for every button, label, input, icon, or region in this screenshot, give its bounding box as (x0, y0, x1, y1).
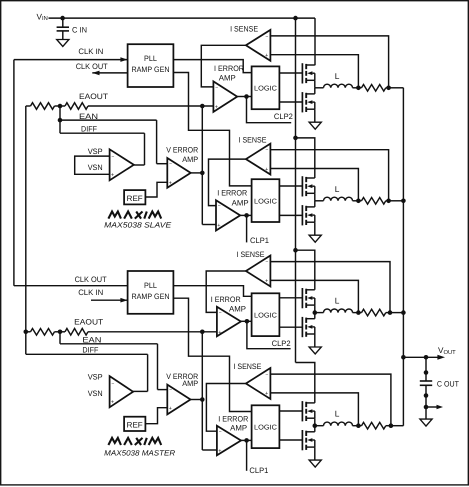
wire gate drive low-side (phase 3) (279, 326, 302, 328)
LOGIC box (phase 2) (252, 179, 280, 222)
wire low-side source to ground (phase 3) (314, 334, 316, 347)
svg-text:+: + (215, 104, 218, 110)
node EAOUT left junction (master) (24, 330, 29, 335)
svg-text:−: − (169, 388, 172, 394)
wire VOUT vertical bus (402, 88, 404, 426)
svg-text:I SENSE: I SENSE (237, 250, 265, 259)
node V ERROR AMP output on EAOUT riser (slave) (200, 171, 205, 176)
low-side MOSFET phase 4 body arrow (307, 438, 312, 442)
high-side MOSFET phase 1 gate bar (301, 63, 303, 83)
svg-text:I ERROR: I ERROR (217, 189, 247, 198)
op-amp I ERROR AMP (phase 4) (217, 426, 241, 456)
svg-text:I ERROR: I ERROR (218, 414, 248, 423)
inductor L (phase 3) (324, 309, 353, 313)
wire switching node to inductor (phase 2) (315, 200, 324, 202)
wire high-side source to switching node (phase 4) (314, 418, 316, 426)
svg-text:VSN: VSN (88, 163, 103, 172)
svg-text:EAOUT: EAOUT (74, 318, 103, 327)
low-side MOSFET phase 1 body-source vertical (314, 102, 316, 109)
svg-text:EAN: EAN (82, 336, 101, 345)
wire C OUT branch (425, 357, 427, 381)
low-side MOSFET phase 3 gate bar (301, 317, 303, 337)
svg-text:LOGIC: LOGIC (254, 86, 277, 93)
svg-text:VSP: VSP (88, 373, 103, 382)
node resistor junction (slave) (58, 104, 63, 109)
svg-text:+: + (169, 406, 172, 412)
wire I SENSE + input to resistor left (phase 4) (270, 393, 358, 426)
wire REF to V ERROR AMP + input (slave) (145, 182, 167, 197)
wire I SENSE - input to resistor right (phase 1) (270, 36, 388, 88)
low-side MOSFET phase 1 drain stub (306, 93, 315, 95)
low-side MOSFET phase 4 channel dashes (305, 431, 307, 436)
wire EAOUT riser (slave) (201, 106, 203, 225)
LOGIC box (phase 3) (252, 293, 280, 336)
svg-text:VSP: VSP (88, 147, 103, 156)
LOGIC box (phase 1) (252, 66, 280, 109)
node C OUT bottom (424, 393, 429, 398)
svg-text:AMP: AMP (232, 199, 249, 208)
PLL RAMP GEN box (slave) (128, 44, 174, 87)
high-side MOSFET phase 2 gate bar (301, 176, 303, 196)
wire switching node to inductor (phase 3) (315, 312, 324, 314)
node VOUT bus output tap (401, 355, 406, 360)
svg-text:MAX5038 MASTER: MAX5038 MASTER (104, 448, 176, 457)
node C OUT top (424, 370, 429, 375)
svg-text:+: + (169, 181, 172, 187)
wire CLK IN stub (master) (91, 299, 128, 301)
svg-text:L: L (335, 71, 340, 81)
svg-text:CLK IN: CLK IN (78, 288, 103, 297)
wire DIFF riser to buffer output (slave) (144, 133, 146, 165)
ground below C IN (57, 40, 69, 47)
ground low-side (phase 4) (309, 460, 321, 467)
svg-text:+: + (265, 53, 268, 59)
REF box (slave) (124, 190, 145, 204)
svg-text:−: − (265, 260, 268, 266)
wire low-side drain to switching node (phase 4) (314, 426, 316, 432)
low-side MOSFET phase 1 source stub (306, 108, 315, 110)
high-side MOSFET phase 4 drain stub (306, 402, 315, 404)
svg-text:+: + (265, 391, 268, 397)
node I ERROR AMP output (phase 4) (244, 438, 249, 443)
wire I ERROR AMP output to LOGIC (phase 1) (237, 96, 251, 98)
wire CLK OUT (master) (14, 285, 128, 287)
inductor L (phase 2) (324, 197, 353, 201)
node VOUT bus phase2 (401, 199, 406, 204)
wire gate drive high-side (phase 2) (279, 185, 302, 187)
wire C OUT bottom (425, 385, 427, 419)
MAXIM logo (slave) (108, 212, 121, 219)
svg-text:+: + (218, 448, 221, 454)
wire gate drive high-side (phase 1) (279, 72, 302, 74)
svg-text:+: + (111, 400, 114, 406)
svg-text:−: − (265, 34, 268, 40)
resistor EAN R (master) (65, 329, 88, 336)
svg-text:AMP: AMP (219, 73, 236, 82)
low-side MOSFET phase 4 gate bar (301, 430, 303, 450)
wire high-side source to switching node (phase 2) (314, 193, 316, 201)
wire low-side drain to switching node (phase 1) (314, 88, 316, 94)
wire gate drive high-side (phase 3) (279, 297, 302, 299)
wire VSP/VSN loop (slave) (75, 156, 110, 174)
wire EAOUT riser to + input (phase 2) (202, 224, 216, 226)
node resistor-VOUT bus (phase 3) (388, 310, 393, 315)
wire CLK OUT stub (slave) (92, 72, 127, 74)
high-side MOSFET phase 2 source stub (306, 192, 315, 194)
high-side MOSFET phase 3 body arrow (307, 296, 312, 300)
comparator I SENSE (phase 1) (246, 30, 271, 61)
wire VIN branch (phase 3) (296, 250, 315, 290)
REF box (master) (124, 417, 145, 431)
svg-text:CLP1: CLP1 (250, 236, 269, 245)
low-side MOSFET phase 2 body arrow (307, 213, 312, 217)
svg-text:LOGIC: LOGIC (254, 424, 277, 431)
svg-text:AMP: AMP (230, 423, 247, 432)
wire CLP1 (phase 4) (246, 440, 248, 470)
node inductor-resistor (phase 1) (356, 86, 361, 91)
wire gate drive low-side (phase 1) (279, 101, 302, 103)
high-side MOSFET phase 1 drain stub (306, 64, 315, 66)
node inductor-resistor (phase 2) (356, 199, 361, 204)
svg-text:+: + (265, 279, 268, 285)
high-side MOSFET phase 2 body arrow (307, 184, 312, 188)
wire high-side source to switching node (phase 3) (314, 305, 316, 313)
wire I SENSE output to I ERROR AMP - (phase 3) (206, 271, 246, 312)
node VIN junction to vertical bus (293, 16, 298, 21)
svg-text:CLP1: CLP1 (249, 466, 268, 475)
node VIN bus tap phase3 (293, 248, 298, 253)
ground low-side (phase 2) (309, 235, 321, 242)
wire CLK loop (master CLKOUT to slave CLKIN) (13, 60, 15, 286)
wire C IN bottom lead (62, 31, 64, 40)
svg-text:I SENSE: I SENSE (230, 25, 258, 34)
svg-text:−: − (219, 310, 222, 316)
svg-text:−: − (218, 204, 221, 210)
low-side MOSFET phase 2 body-source vertical (314, 215, 316, 222)
comparator I SENSE (phase 3) (246, 256, 271, 287)
node switching node (phase 4) (313, 423, 318, 428)
capacitor C OUT (420, 380, 432, 382)
svg-text:RAMP GEN: RAMP GEN (132, 292, 170, 301)
ground C OUT (420, 419, 432, 426)
svg-text:PLL: PLL (144, 54, 158, 63)
wire low-side source to ground (phase 2) (314, 222, 316, 235)
wire VIN branch (phase 2) (296, 138, 315, 178)
op-amp I ERROR AMP (phase 1) (213, 81, 237, 112)
node switching node (phase 3) (313, 310, 318, 315)
wire low-side source to ground (phase 4) (314, 447, 316, 460)
wire I SENSE + input to resistor left (phase 3) (270, 280, 358, 312)
wire switching node to inductor (phase 1) (315, 87, 324, 89)
wire PLL to LOGIC phase B (master) (173, 298, 251, 411)
svg-text:+: + (111, 173, 114, 179)
resistor feedback R (master) (31, 329, 55, 336)
node I ERROR AMP output (phase 2) (244, 213, 249, 218)
svg-text:CLP2: CLP2 (274, 112, 293, 121)
wire switching node to inductor (phase 4) (315, 425, 324, 427)
node V ERROR AMP output on EAOUT riser (master) (200, 397, 205, 402)
wire EAN tap (master) (59, 332, 61, 344)
wire DIFF line (master) (26, 353, 148, 355)
svg-text:VSN: VSN (88, 389, 103, 398)
capacitor C IN (57, 26, 69, 28)
node resistor junction (master) (58, 330, 63, 335)
low-side MOSFET phase 4 body-source vertical (314, 440, 316, 447)
node inductor-resistor (phase 4) (356, 423, 361, 428)
op-amp VSP/VSN buffer (slave) (110, 149, 134, 180)
node load arrow tap (424, 405, 429, 410)
node I ERROR AMP output (phase 1) (244, 94, 249, 99)
node I ERROR AMP output (phase 3) (245, 319, 250, 324)
high-side MOSFET phase 4 body arrow (307, 409, 312, 413)
svg-text:CLK OUT: CLK OUT (76, 62, 108, 71)
low-side MOSFET phase 3 source stub (306, 333, 315, 335)
svg-text:CLK OUT: CLK OUT (75, 275, 107, 284)
ground low-side (phase 3) (309, 347, 321, 354)
op-amp VSP/VSN buffer (master) (110, 376, 134, 407)
svg-text:+: + (217, 223, 220, 229)
wire EAOUT riser (master) (201, 332, 203, 450)
svg-text:V ERROR: V ERROR (166, 146, 198, 155)
wire resistor to VOUT bus (phase 3) (390, 312, 403, 314)
svg-text:CLP2: CLP2 (272, 339, 291, 348)
wire C IN top lead (62, 18, 64, 27)
svg-text:I SENSE: I SENSE (239, 135, 267, 144)
wire I SENSE - input to resistor right (phase 2) (270, 150, 388, 201)
wire I SENSE output to I ERROR AMP - (phase 2) (209, 159, 246, 206)
svg-text:REF: REF (127, 194, 143, 203)
ground low-side (phase 1) (309, 122, 321, 129)
svg-text:−: − (265, 148, 268, 154)
svg-text:+: + (265, 167, 268, 173)
wire VOUT tap (403, 356, 438, 358)
wire I SENSE - input to resistor right (phase 4) (270, 374, 391, 426)
svg-text:REF: REF (127, 421, 143, 430)
svg-text:L: L (335, 184, 340, 194)
svg-text:EAN: EAN (79, 112, 98, 121)
low-side MOSFET phase 2 drain stub (306, 206, 315, 208)
MAXIM logo (master) (108, 438, 121, 445)
high-side MOSFET phase 4 channel dashes (305, 402, 307, 407)
wire high-side source to switching node (phase 1) (314, 80, 316, 88)
low-side MOSFET phase 1 channel dashes (305, 93, 307, 98)
wire I SENSE - input to resistor right (phase 3) (270, 262, 390, 313)
wire PLL to LOGIC phase A (master) (173, 286, 251, 297)
node resistor-VOUT bus (phase 2) (386, 199, 391, 204)
svg-text:AMP: AMP (229, 305, 246, 314)
comparator I SENSE (phase 2) (246, 144, 271, 175)
wire EAOUT row (master) (26, 331, 31, 333)
svg-text:−: − (111, 381, 114, 387)
high-side MOSFET phase 1 body-source vertical (314, 73, 316, 80)
svg-text:AMP: AMP (182, 155, 198, 164)
svg-text:L: L (335, 296, 340, 306)
low-side MOSFET phase 2 source stub (306, 221, 315, 223)
wire resistor to VOUT bus (phase 1) (389, 87, 404, 89)
wire EAN riser to V ERROR AMP inverting input (slave) (156, 120, 158, 164)
high-side MOSFET phase 4 body-source vertical (314, 411, 316, 418)
high-side MOSFET phase 2 channel dashes (305, 177, 307, 182)
PLL RAMP GEN box (master) (128, 271, 174, 314)
low-side MOSFET phase 4 drain stub (306, 431, 315, 433)
low-side MOSFET phase 1 body arrow (307, 100, 312, 104)
resistor feedback R (slave) (31, 103, 55, 110)
wire V ERROR AMP output (slave) (191, 172, 203, 174)
svg-text:LOGIC: LOGIC (254, 198, 277, 205)
wire EAOUT network link (slave to master) (25, 106, 27, 354)
svg-text:LOGIC: LOGIC (254, 312, 277, 319)
node EAOUT riser tap (slave) (200, 104, 205, 109)
LOGIC box (phase 4) (252, 405, 280, 448)
wire REF to V ERROR AMP + input (master) (145, 408, 167, 424)
wire low-side drain to switching node (phase 2) (314, 201, 316, 207)
node VIN junction to C IN (60, 16, 65, 21)
node inductor-resistor (phase 3) (356, 310, 361, 315)
sense resistor (phase 3) (358, 312, 361, 314)
wire EAOUT riser to + input (phase 4) (202, 449, 217, 451)
svg-text:I ERROR: I ERROR (214, 64, 244, 73)
low-side MOSFET phase 1 gate bar (301, 92, 303, 112)
wire V ERROR AMP output (master) (191, 399, 203, 401)
svg-text:−: − (111, 154, 114, 160)
svg-text:+: + (218, 330, 221, 336)
high-side MOSFET phase 3 channel dashes (305, 289, 307, 294)
svg-text:AMP: AMP (182, 379, 198, 388)
low-side MOSFET phase 2 gate bar (301, 205, 303, 225)
svg-text:PLL: PLL (144, 281, 158, 290)
wire CLP2 (phase 3) (247, 321, 291, 348)
wire EAOUT row (slave) (26, 105, 31, 107)
low-side MOSFET phase 3 body arrow (307, 325, 312, 329)
low-side MOSFET phase 3 channel dashes (305, 318, 307, 323)
high-side MOSFET phase 3 gate bar (301, 288, 303, 308)
wire EAN/DIFF taps (slave) (59, 106, 61, 133)
low-side MOSFET phase 4 source stub (306, 446, 315, 448)
wire gate drive high-side (phase 4) (279, 410, 302, 412)
high-side MOSFET phase 1 source stub (306, 79, 315, 81)
wire I SENSE + input to resistor left (phase 2) (270, 169, 358, 201)
wire PLL to LOGIC phase A (slave) (173, 60, 251, 73)
wire I SENSE output to I ERROR AMP - (phase 1) (201, 45, 246, 87)
wire buffer output (master) (133, 390, 148, 392)
inductor L (phase 4) (324, 422, 353, 426)
node EAOUT riser tap (master) (200, 330, 205, 335)
high-side MOSFET phase 3 body-source vertical (314, 298, 316, 305)
svg-text:CLK IN: CLK IN (78, 47, 103, 56)
wire low-side drain to switching node (phase 3) (314, 313, 316, 319)
wire I SENSE output to I ERROR AMP - (phase 4) (206, 384, 246, 432)
sense resistor (phase 4) (358, 425, 361, 427)
op-amp I ERROR AMP (phase 2) (216, 200, 240, 230)
wire VIN vertical bus (295, 18, 297, 362)
low-side MOSFET phase 2 channel dashes (305, 206, 307, 211)
node VOUT bus phase3 (401, 310, 406, 315)
wire I SENSE + input to resistor left (phase 1) (270, 55, 358, 88)
wire low-side source to ground (phase 1) (314, 109, 316, 122)
inductor L (phase 1) (324, 84, 353, 88)
wire VIN branch (phase 4) (296, 363, 315, 403)
svg-text:DIFF: DIFF (82, 346, 98, 355)
wire VIN drop to phase1 high-side drain (314, 18, 316, 65)
op-amp I ERROR AMP (phase 3) (217, 307, 241, 337)
resistor EAN R (slave) (65, 103, 88, 110)
wire resistor to VOUT bus (phase 2) (389, 200, 404, 202)
svg-text:C OUT: C OUT (437, 379, 459, 388)
svg-text:C IN: C IN (72, 25, 87, 34)
wire CLP1 (phase 2) (246, 215, 248, 242)
wire CLK IN (slave) (14, 59, 128, 61)
svg-text:−: − (265, 372, 268, 378)
comparator I SENSE (phase 4) (246, 368, 271, 399)
svg-text:MAX5038 SLAVE: MAX5038 SLAVE (104, 220, 172, 229)
high-side MOSFET phase 3 source stub (306, 304, 315, 306)
wire gate drive low-side (phase 2) (279, 214, 302, 216)
wire PLL to LOGIC phase B (slave) (173, 73, 251, 186)
wire resistor to VOUT bus (phase 4) (391, 425, 404, 427)
wire I ERROR AMP output to LOGIC (phase 4) (241, 439, 252, 441)
high-side MOSFET phase 1 body arrow (307, 71, 312, 75)
sense resistor (phase 2) (358, 200, 361, 202)
wire gate drive low-side (phase 4) (279, 439, 302, 441)
svg-text:I SENSE: I SENSE (233, 362, 261, 371)
wire DIFF riser to buffer output (master) (147, 354, 149, 391)
node VOUT/COUT junction (424, 355, 429, 360)
low-side MOSFET phase 3 drain stub (306, 318, 315, 320)
wire CLP2 (phase 1) (247, 97, 292, 123)
high-side MOSFET phase 1 channel dashes (305, 64, 307, 69)
arrow to load (426, 406, 437, 408)
wire VIN rail horizontal (49, 17, 316, 19)
svg-text:DIFF: DIFF (81, 124, 97, 133)
low-side MOSFET phase 3 body-source vertical (314, 327, 316, 334)
high-side MOSFET phase 4 source stub (306, 417, 315, 419)
high-side MOSFET phase 2 body-source vertical (314, 186, 316, 193)
svg-text:−: − (219, 429, 222, 435)
svg-text:−: − (215, 85, 218, 91)
sense resistor (phase 1) (358, 87, 361, 89)
node resistor-VOUT bus (phase 4) (389, 423, 394, 428)
wire I ERROR AMP output to LOGIC (phase 2) (240, 214, 251, 216)
op-amp V ERROR AMP (slave) (167, 158, 190, 188)
svg-text:EAOUT: EAOUT (79, 92, 108, 101)
svg-text:L: L (335, 409, 340, 419)
high-side MOSFET phase 4 gate bar (301, 401, 303, 421)
arrow VOUT (437, 355, 445, 360)
svg-text:I ERROR: I ERROR (211, 295, 241, 304)
wire I ERROR AMP output to LOGIC (phase 3) (241, 320, 252, 322)
wire buffer output (slave) (134, 164, 145, 166)
svg-text:−: − (169, 162, 172, 168)
wire EAN riser to V ERROR AMP inverting input (master) (157, 344, 159, 390)
high-side MOSFET phase 3 drain stub (306, 289, 315, 291)
node VIN bus tap phase2 (293, 136, 298, 141)
op-amp V ERROR AMP (master) (167, 385, 190, 415)
node resistor-VOUT bus (phase 1) (386, 86, 391, 91)
high-side MOSFET phase 2 drain stub (306, 177, 315, 179)
svg-text:RAMP GEN: RAMP GEN (132, 65, 170, 74)
